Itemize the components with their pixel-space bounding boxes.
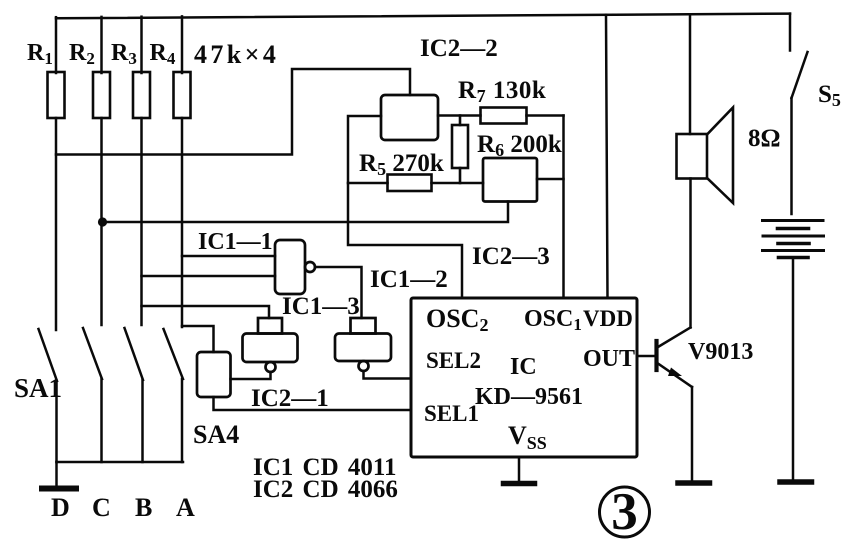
wire: bus to R2 [100,17,103,73]
svg-text:R7 130k: R7 130k [458,77,546,106]
svg-text:3: 3 [611,483,638,541]
svg-text:VSS: VSS [508,421,547,453]
resistor R2 [93,72,110,118]
svg-text:V9013: V9013 [688,339,753,365]
analog switch IC2-1 [197,352,231,397]
ground at battery [780,479,812,485]
resistor R4 [174,72,191,118]
svg-text:R2: R2 [69,40,95,68]
junction dot on R2 column [98,217,107,226]
svg-text:IC2 CD 4066: IC2 CD 4066 [253,476,398,503]
resistor R5 [348,175,483,192]
svg-text:47k×4: 47k×4 [194,40,279,69]
wire: R2 column to IC2-3 output pin [102,202,509,223]
resistor R7 [481,108,564,124]
svg-text:IC1—2: IC1—2 [370,266,448,293]
transistor V9013 [657,328,693,388]
wire: OUT pin to transistor base [637,355,655,358]
resistor R1 [48,72,65,118]
svg-text:C: C [92,493,111,522]
svg-text:IC: IC [510,354,537,380]
bottom bus wire [57,461,184,464]
svg-text:B: B [135,493,152,522]
svg-text:SEL2: SEL2 [426,348,481,373]
speaker LS 8ohm [677,108,734,204]
svg-text:IC2—3: IC2—3 [472,243,550,270]
wire: battery negative down [792,259,795,480]
resistor R3 [133,72,150,118]
nand gate IC1-2 [335,318,391,371]
svg-text:SEL1: SEL1 [424,401,479,426]
ground at switch bus [42,462,76,489]
ground at VSS pin [504,457,535,484]
svg-text:D: D [51,493,70,522]
svg-text:IC1—1: IC1—1 [198,229,273,255]
svg-text:IC2—1: IC2—1 [251,385,329,412]
svg-text:R5 270k: R5 270k [359,150,444,179]
wire: R1 to switch D [55,118,58,330]
wire: R4 column to IC1-1 input 1 [182,255,275,258]
wire: node R1 column to IC2-2 input [56,69,410,155]
wire: R2 to switch C [100,118,103,325]
ground at emitter [678,480,710,486]
wire: bus to R1 [55,17,58,73]
switch SA1-C [83,328,102,462]
wire: R7 right to OSC1 pin [562,116,565,299]
svg-text:8Ω: 8Ω [748,125,781,152]
wire: IC1-2 output to SEL2 pin [364,371,412,379]
svg-text:IC1—3: IC1—3 [282,293,360,320]
svg-text:R3: R3 [111,40,137,68]
nand gate IC1-1 [275,240,315,294]
svg-text:A: A [176,493,195,522]
wire: switch A column to IC2-1 input [182,326,214,352]
svg-text:R1: R1 [27,40,53,68]
wire: top bus to speaker [689,14,692,134]
wire: collector to speaker [689,179,692,328]
wire: emitter to ground [691,387,694,481]
switch S5 [790,14,808,98]
svg-text:SA1: SA1 [14,373,62,403]
switch SA1-B [125,328,144,462]
battery GB [763,221,824,258]
wire: IC2-2 right pin to R7 [438,114,481,117]
svg-text:R4: R4 [150,40,176,68]
switch SA4-A [164,329,184,462]
resistor R6 (vertical) [452,116,468,184]
wire: IC1-3 output to IC2-1 pin [231,372,271,379]
svg-text:OUT: OUT [583,346,635,372]
wire: R3 to switch B [140,118,143,325]
wire: VDD pin to top bus [606,15,608,298]
svg-text:OSC1: OSC1 [524,306,582,334]
wire: IC2-2 left pin loop to OSC2 pin [348,116,462,298]
wire: R3 column to IC1-1 input 2 [142,275,276,278]
svg-text:SA4: SA4 [193,420,239,449]
wire: R4 to switch A [181,118,184,327]
nand gate IC1-3 [243,318,298,372]
top power bus wire [56,14,790,19]
wire: IC1-1 output to IC1-2 input [315,267,362,318]
analog switch IC2-2 [381,95,438,140]
analog switch IC2-3 [483,158,537,202]
svg-text:IC2—2: IC2—2 [420,35,498,62]
svg-text:S5: S5 [818,81,841,110]
switch SA1-D [39,329,58,462]
wire: bus to R3 [140,17,143,73]
svg-text:VDD: VDD [583,306,633,331]
svg-text:KD—9561: KD—9561 [475,384,583,410]
svg-text:OSC2: OSC2 [426,304,488,335]
figure number 3 circle [600,487,650,537]
IC KD-9561 box [411,298,637,457]
wire: S5 to battery [790,98,793,214]
wire: R3 column to IC1-3 input [142,306,270,318]
wire: bus to R4 [181,16,184,73]
wire: IC2-3 right pin to OSC1 column [537,178,564,181]
svg-text:R6 200k: R6 200k [477,131,562,160]
wire: IC2-1 to SEL1 pin [214,397,412,410]
